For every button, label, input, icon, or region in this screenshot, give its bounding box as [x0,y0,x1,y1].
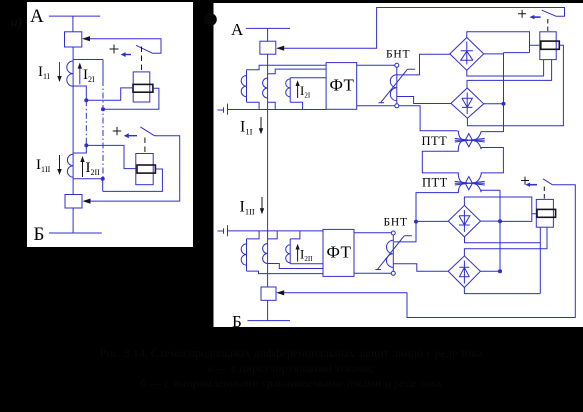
svg-text:Б: Б [232,312,242,331]
wire VD2 bottom corner [467,118,503,126]
supply arrowhead KA1 [121,52,126,57]
bus B horizontal wire [49,232,102,234]
BNT1 primary vertical [396,67,398,104]
breaker QB2 [261,287,276,300]
winding W3 bar [289,78,291,103]
contact fixed stub KA1 [125,54,131,56]
wire W1 bottom to ground bus [247,102,260,109]
PTT1 upper left stub [457,131,459,133]
trip arrowhead Q2 [83,199,91,204]
winding W5 arcs on bus [263,244,268,264]
svg-text:ФТ: ФТ [330,76,355,95]
wire W6 to FT2 input3 [290,263,323,265]
PTT1 lower winding [458,140,481,149]
svg-text:Б: Б [34,224,45,245]
pilot wire left dash-dot [85,100,87,145]
armature KA1 [133,84,153,92]
mechanical link KA2 [144,138,146,153]
PTT2 core line [455,182,485,184]
trip arrowhead Q1 [82,36,90,41]
wire VD1 top to KB1 left [467,32,540,53]
winding W6 bar [289,239,291,264]
ground wire top group [228,109,327,111]
current label I2II (panel b) [300,247,313,264]
diode bridge VD1 [450,38,484,71]
current label I1I [38,64,50,81]
bus B horizontal wire (panel b) [247,320,290,322]
wire FT1 top output [357,64,395,66]
vertical junction wire right of bridges [503,53,505,132]
diode bridge VD2 [451,88,484,118]
contact blade KA2 [140,127,154,136]
svg-text:ПТТ: ПТТ [422,176,448,190]
wire KA1 coil left [86,88,133,100]
plus sign SB2 [521,177,529,185]
wire VD4 right corner [480,270,500,272]
svg-text:ПТТ: ПТТ [422,134,448,148]
label b) blob [204,13,217,26]
wire KA2 coil right return [103,169,163,191]
wire BNT1 bottom to PTT1 [399,106,458,131]
pilot wire right dash-dot [102,80,104,179]
contact fixed stub KA2 [129,135,137,137]
svg-text:а): а) [11,14,22,29]
wire trip circuit QB2 [282,185,576,318]
BNT2 winding arcs [386,240,393,267]
arrow I1I down [59,62,61,79]
wire W3 to FT input3 [290,77,326,79]
breaker QB1 [260,41,276,54]
CT1 top tap elbow [73,59,103,61]
current label I2I [83,67,95,84]
mechanical link KB2 [543,187,545,199]
trip arrowhead QB1 [276,46,284,51]
wire KB1 bottom lead1 to VD1 bottom [467,60,544,76]
PTT1 lower left loop to PTT2 [422,149,458,175]
wire KB1 bottom lead2 to VD2 top [467,60,552,88]
bus A horizontal wire (panel b) [246,27,290,29]
bus B label (panel b) [232,312,242,331]
diode bridge VD4 [448,256,480,288]
armature KA2 [137,165,155,173]
svg-text:А: А [231,20,244,39]
mechanical link KB1 [547,19,549,31]
arrow I2I up (panel b) [297,84,299,99]
wire FT1 bottom output [357,105,395,107]
PTT2 label [422,176,448,190]
svg-text:ФТ: ФТ [327,243,352,262]
arrow I1II down [59,155,61,172]
winding W5 elbow from ground bus [268,231,278,239]
diode VD2 symbol [462,93,472,115]
wire W3 bottom to ground bus [290,102,302,109]
svg-text:а — с циркулирующими токами;: а — с циркулирующими токами; [208,361,375,375]
ground terminal bottom group [218,225,228,236]
CT1 winding arcs (panel a top) [67,61,73,86]
wire KB1 junction to vertical [504,52,530,54]
supply arrow SB2 [530,184,537,186]
node N3 [84,143,88,147]
PTT2 upper winding [458,174,481,183]
wire KB2 junction branch [500,214,532,222]
wire bus drop to breaker QB1 [267,28,269,41]
arrow I1I down (panel b) [260,117,262,131]
bus A label (panel a) [30,6,44,27]
node dot VD2 right [502,102,506,106]
current label I1II (panel b) [240,199,255,217]
PTT2 lower right wire down [481,190,500,271]
PTT2 lower winding [458,183,481,192]
bus to B (panel b) [267,300,269,320]
winding W6 arcs [286,245,291,263]
diode VD1 symbol [461,42,473,65]
bus B label (panel a) [34,224,45,245]
arrow I2I up [79,66,81,84]
wire BNT2 lower tap to VD4 [393,264,448,272]
wire VD3 top to KB2 left [464,197,536,214]
winding W3 arcs [286,79,291,97]
BNT2 saturation slash [375,236,412,270]
BNT1 terminal circle top [395,63,399,67]
svg-text:БНТ: БНТ [386,49,410,61]
PTT1 label [422,134,448,148]
plus sign KA2 circuit [113,127,122,135]
breaker Q1 (panel a) [65,32,82,47]
PTT1 cross marks [455,138,485,142]
node dot VD3 right [498,219,502,223]
current label I2I (panel b) [300,83,311,100]
bus vertical (panel b) [267,54,269,287]
BNT2 primary vertical [392,235,394,271]
CT2 winding arcs (panel a bottom) [67,154,73,177]
wire VD4 bottom loop [464,288,540,294]
plus sign SB1 [518,10,526,18]
wire armature KB1 output down [504,45,564,125]
winding W4 elbow from ground bus [247,231,260,239]
winding W2 arcs on bus [263,78,268,98]
wire KA1 coil right return [103,88,159,109]
PTT1 upper right stub [480,131,482,134]
wire W1 to FT input1 [247,65,327,69]
wire W2 to FT input2 [268,69,327,74]
filter FT2 label [327,243,352,262]
node N4 [101,177,105,181]
wire BNT1 tap1 to bridge VD1 [397,54,451,75]
diode bridge VD3 [448,205,480,237]
diode VD3 symbol [459,210,470,232]
contact blade SB2 [543,179,553,185]
diode VD4 symbol [459,261,469,284]
wire KB2 bottom lead2 to VD4 top [464,227,547,256]
BNT1 terminal circle bottom [395,104,399,108]
winding W1 arcs [241,75,246,96]
wire node to VD3 left [416,220,448,222]
winding W1 bar [246,70,248,103]
PTT1 lower right loop to PTT2 [481,148,503,175]
wire KB2 bottom lead1 to VD3 bottom [465,227,541,293]
supply arrow SB1 [534,16,541,18]
BNT2 terminal circle bottom [391,271,395,275]
ground terminal top group [218,104,228,115]
node dot VD4 right [498,269,502,273]
armature KB1 [541,41,560,49]
BNT1 saturation slash [379,69,416,103]
plus sign KA1 circuit [110,45,119,54]
bus vertical (panel a) [72,47,74,195]
filter FT1 box [326,63,357,110]
PTT2 lower left wire to BNT2 [394,192,458,242]
pilot wire right upper solid [102,60,104,81]
BNT2 terminal circle top [391,231,395,235]
svg-text:Рис. 3.14. Схемы продольных ди: Рис. 3.14. Схемы продольных дифференциал… [99,346,483,360]
CT1 bottom tap elbow [73,86,86,100]
wire bus drop to breaker [72,16,74,32]
contact blade KA1 [136,45,152,53]
wire BNT1 tap2 to bridge VD2 [397,97,451,104]
wire trip circuit QB1 [284,8,565,49]
filter FT2 box [323,229,354,276]
svg-text:А: А [30,6,44,27]
panel a background [27,2,193,247]
arrow I2II up (panel b) [297,247,299,262]
trip arrowhead QB2 [276,290,284,295]
current label I1II [36,157,51,174]
current label I2II [86,160,101,177]
svg-text:б — с выпрямленными сравниваем: б — с выпрямленными сравниваемыми токами… [140,376,442,390]
wire W2 bottom to ground bus [268,102,276,109]
BNT1 label [386,49,410,61]
node N1 [101,107,105,111]
breaker Q2 (panel a) [65,195,82,209]
PTT1 core line [455,139,485,141]
node N2 [84,98,88,102]
ground wire bottom group [228,230,324,232]
wire VD3 right corner [481,220,501,222]
wire trip circuit Q1 [90,39,162,54]
wire W4 to FT2 input1 [247,271,324,274]
arrow I1II down (panel b) [261,197,263,211]
relay coil KA2 [136,154,153,185]
wire VD2 right corner [484,103,504,105]
winding W4 arcs [241,244,246,265]
relay coil KA1 [133,72,150,102]
BNT2 label [384,217,408,229]
current label I1I (panel b) [240,119,253,137]
wire trip circuit Q2 [90,136,180,201]
node dot pilot left [414,220,418,224]
mechanical link KA1 [141,47,143,72]
svg-text:БНТ: БНТ [384,217,408,229]
wire VD1 right corner [484,53,504,55]
CT2 bottom tap elbow [73,178,103,180]
armature KB2 [537,209,556,217]
PTT1 upper winding [458,131,481,140]
wire FT2 top output [354,232,391,234]
wire KA2 coil left [86,145,136,168]
winding W4 bar [246,239,248,271]
filter FT1 label [330,76,355,95]
contact blade SB1 [542,10,556,16]
PTT2 cross marks [455,181,485,185]
winding W6 elbow from ground bus [290,231,300,239]
panel b background [214,3,583,327]
bus A label (panel b) [231,20,244,39]
wire FT2 bottom output [354,272,391,274]
wire W5 to FT2 input2 [268,264,323,269]
arrow I2II up [82,159,84,177]
CT2 top tap elbow [73,145,86,153]
bus A horizontal wire [49,15,100,17]
relay coil KB2 [536,199,553,227]
wire vertical to PTT1 upper right [482,126,504,132]
supply arrowhead KA2 [124,133,129,138]
bus to B [72,208,74,233]
BNT1 winding arcs [390,75,397,101]
relay coil KB1 [540,32,556,60]
